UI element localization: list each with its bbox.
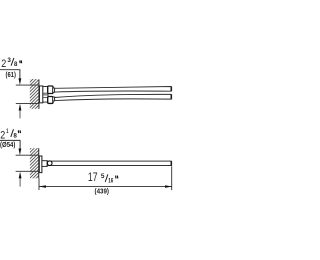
fraction slash xyxy=(11,129,14,137)
lower pivot hub (top view) xyxy=(48,97,53,104)
wall surface line (top view) xyxy=(38,79,40,108)
svg-text:5: 5 xyxy=(101,173,105,180)
arrow tail xyxy=(19,110,21,118)
mount body (top view) xyxy=(43,86,48,102)
svg-text:3: 3 xyxy=(7,57,11,64)
dimension line xyxy=(39,186,172,188)
escutcheon plate (bottom view) xyxy=(39,156,42,173)
upper arm stub xyxy=(53,88,55,92)
leader underline xyxy=(0,140,20,148)
dimension text 2 1/8" xyxy=(0,128,17,141)
upper pivot hub (top view) xyxy=(48,86,53,94)
svg-text:16: 16 xyxy=(108,177,113,184)
pivot hub (bottom view) xyxy=(42,161,47,167)
towel bar arm (bottom view) xyxy=(47,161,171,165)
svg-text:2: 2 xyxy=(1,58,6,70)
arrow right xyxy=(165,185,172,188)
fraction slash xyxy=(105,174,108,182)
upper arm (top view) xyxy=(55,87,171,93)
extension line bottom (61 dim) xyxy=(16,102,39,104)
lower arm (top view) xyxy=(55,94,171,100)
inch quote marks xyxy=(18,130,20,133)
arrow left xyxy=(39,185,46,188)
leader underline xyxy=(0,70,20,79)
arrow up (61 dim, bottom) xyxy=(19,104,22,111)
svg-text:(61): (61) xyxy=(6,72,16,79)
arrow up (54 dim, bottom) xyxy=(19,172,22,179)
extension line bottom (54 dim) xyxy=(16,170,39,172)
arrow tail xyxy=(19,178,21,186)
svg-text:8: 8 xyxy=(14,61,18,68)
left extension line xyxy=(38,178,40,190)
extension line top (61 dim) xyxy=(16,84,39,86)
svg-text:(Ø54): (Ø54) xyxy=(0,142,15,149)
inch quote marks xyxy=(20,60,22,63)
extension line top (54 dim) xyxy=(16,154,39,156)
svg-text:8: 8 xyxy=(13,132,17,139)
dimension text 2 3/8" xyxy=(1,57,18,70)
escutcheon plate (top view) xyxy=(39,86,42,103)
wall surface line (bottom view) xyxy=(38,148,40,178)
arrow down (54 dim, top) xyxy=(19,149,22,156)
lower arm stub xyxy=(53,97,55,101)
svg-text:17: 17 xyxy=(88,172,98,184)
dimension text 17 5/16" xyxy=(88,172,114,184)
arrow down (61 dim, top) xyxy=(19,78,22,85)
fraction slash xyxy=(11,58,14,66)
svg-text:2: 2 xyxy=(0,129,5,141)
pivot pin circle xyxy=(47,161,52,166)
right extension line xyxy=(171,166,173,190)
wall hatching (top view) xyxy=(30,79,39,109)
svg-text:(439): (439) xyxy=(95,186,110,195)
inch quote marks xyxy=(116,176,118,179)
svg-text:1: 1 xyxy=(6,128,8,135)
wall hatching (bottom view) xyxy=(30,148,39,178)
